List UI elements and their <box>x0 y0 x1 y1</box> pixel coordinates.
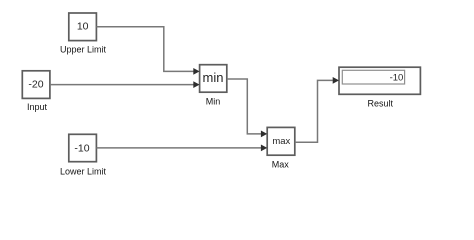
block Min (MinMax) <box>200 65 227 93</box>
svg-text:-10: -10 <box>390 73 404 84</box>
arrowhead Max in2 <box>261 145 267 152</box>
wire Lower Limit -> Max in2 <box>96 147 261 149</box>
svg-text:Upper Limit: Upper Limit <box>60 44 107 54</box>
block Input (Constant -20) <box>22 71 50 99</box>
svg-text:Min: Min <box>206 97 221 107</box>
wire Max out -> Result <box>295 80 333 142</box>
svg-text:min: min <box>203 70 224 85</box>
arrowhead Result in <box>333 77 339 84</box>
svg-text:Input: Input <box>27 102 48 112</box>
svg-text:-20: -20 <box>28 79 43 91</box>
svg-text:Max: Max <box>272 160 290 170</box>
svg-text:max: max <box>272 136 290 147</box>
arrowhead Min in2 <box>193 81 199 88</box>
wire Min out -> Max in1 <box>227 79 261 134</box>
svg-text:Result: Result <box>368 99 394 109</box>
block Result (Display) <box>339 67 420 94</box>
block Max (MinMax) <box>267 127 295 155</box>
svg-text:-10: -10 <box>74 142 89 154</box>
svg-text:10: 10 <box>77 20 89 32</box>
block Upper Limit (Constant 10) <box>69 13 97 41</box>
arrowhead Min in1 <box>193 68 199 75</box>
wire Upper Limit -> Min in1 <box>96 27 193 72</box>
wire Input -> Min in2 <box>50 84 194 86</box>
arrowhead Max in1 <box>261 131 267 138</box>
block Lower Limit (Constant -10) <box>69 134 97 161</box>
svg-text:Lower Limit: Lower Limit <box>60 166 107 176</box>
